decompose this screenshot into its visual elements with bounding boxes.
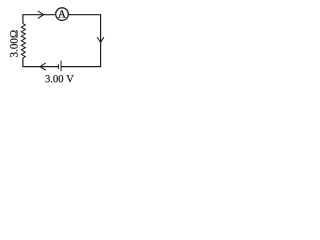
battery V1 positive plate (long)	[60, 61, 62, 71]
ammeter letter A	[58, 10, 66, 17]
current arrow bottom (pointing left)	[40, 63, 45, 70]
wire left-bottom segment to battery negative plate	[23, 58, 59, 67]
wire top-right, right side and bottom-right to battery positive plate	[61, 15, 101, 67]
current arrow right side (pointing down)	[97, 37, 103, 42]
wire top-left and left segment down to resistor	[23, 15, 56, 24]
current arrow top (pointing right)	[38, 11, 44, 18]
battery V1 negative plate (short)	[57, 64, 59, 69]
resistor R 3.00 ohm zigzag	[21, 24, 25, 58]
ammeter U1 circle	[56, 8, 69, 21]
battery value label 3.00 V	[46, 75, 74, 82]
resistor value label 3.00 ohm (rotated)	[10, 30, 18, 57]
